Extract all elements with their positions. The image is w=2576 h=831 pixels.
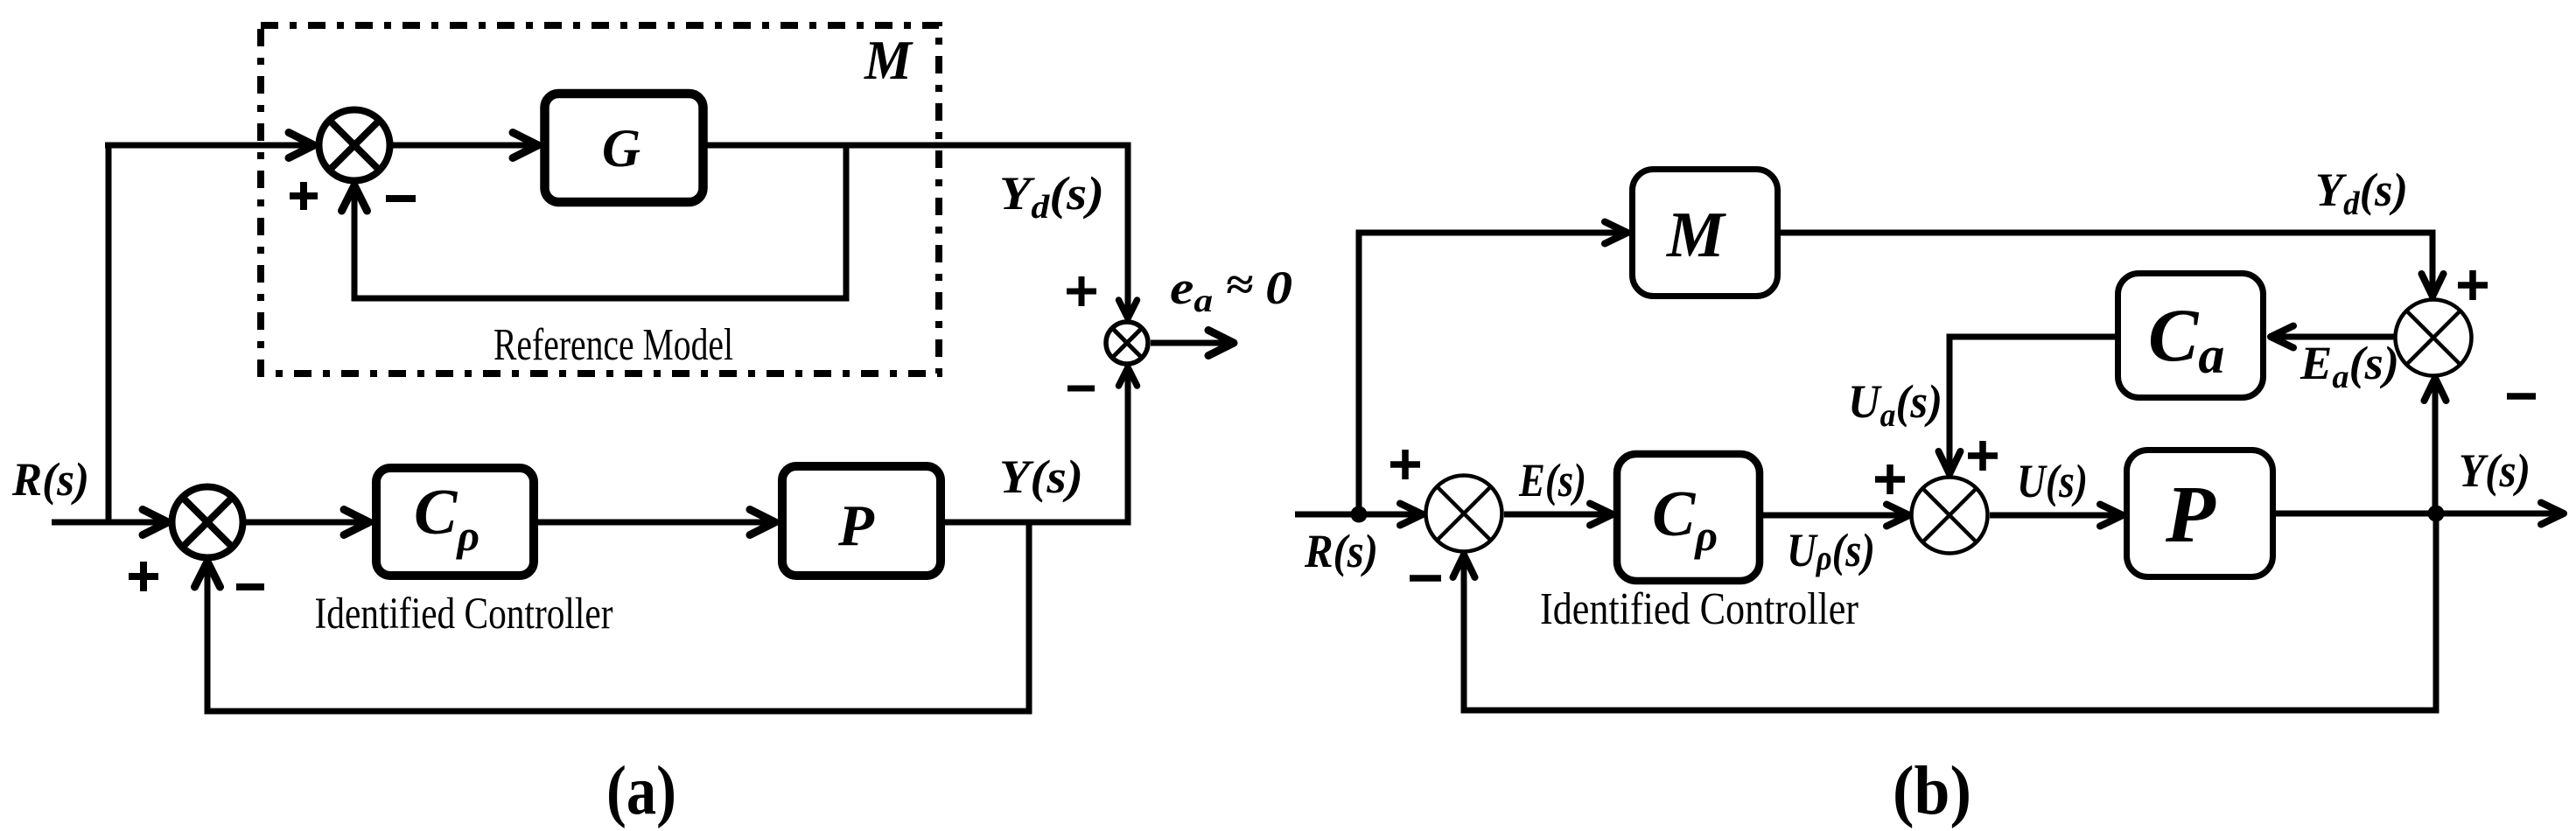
plus sign S4 — [1390, 450, 1420, 479]
svg-text:M: M — [864, 29, 913, 91]
wire M output Yd(s) (b) — [1781, 233, 2444, 297]
wire feedback loop (b) — [1453, 513, 2437, 710]
node Y(s) branch dot — [2428, 506, 2445, 522]
plus sign S3 — [1067, 276, 1096, 306]
svg-text:Y(s): Y(s) — [999, 450, 1083, 503]
summing junction S6 (middle) — [1912, 478, 1988, 554]
svg-text:(a): (a) — [606, 753, 676, 829]
wire into summing junction S1 — [105, 133, 314, 158]
wire S4 to C_rho (b) — [1504, 504, 1613, 526]
wire G feedback loop — [342, 145, 847, 298]
svg-text:Uρ(s): Uρ(s) — [1787, 524, 1875, 577]
svg-text:U(s): U(s) — [2017, 455, 2088, 507]
wire ea output — [1151, 331, 1234, 356]
wire P output Y(s) up into S3 — [945, 367, 1137, 522]
svg-text:ea ≈ 0: ea ≈ 0 — [1170, 260, 1292, 319]
svg-text:Ea(s): Ea(s) — [2299, 337, 2399, 395]
wire C_rho to S6 (b) — [1763, 505, 1909, 527]
node R(s) branch dot — [1351, 506, 1368, 523]
summing junction S4 (left, b) — [1426, 476, 1502, 552]
wire branch R(s) up (a) — [106, 145, 112, 525]
block G — [545, 94, 703, 202]
svg-text:R(s): R(s) — [11, 453, 89, 506]
plus sign S1 — [290, 182, 318, 210]
svg-text:Yd(s): Yd(s) — [999, 167, 1104, 226]
svg-text:E(s): E(s) — [1518, 454, 1586, 506]
summing junction S3 (ea) — [1106, 322, 1148, 364]
svg-text:Reference Model: Reference Model — [493, 320, 733, 370]
wire S1 to G — [390, 133, 538, 158]
wire G output — [707, 143, 1131, 149]
wire branch up to M (b) — [1359, 222, 1627, 515]
svg-text:P: P — [2165, 470, 2216, 560]
svg-text:Y(s): Y(s) — [2459, 444, 2530, 497]
svg-text:Yd(s): Yd(s) — [2315, 164, 2408, 222]
wire Yd(s) down into S3 — [1119, 145, 1137, 318]
minus sign S3 — [1067, 386, 1095, 392]
plus sign S6 left — [1875, 464, 1905, 494]
wire S6 to P (b) — [1990, 505, 2123, 527]
wire S2 to C_rho (a) — [243, 510, 369, 535]
svg-text:Cρ: Cρ — [1652, 478, 1718, 560]
block P (a) plant — [782, 466, 941, 576]
svg-text:M: M — [1666, 199, 1726, 271]
block M (b) reference model — [1633, 170, 1778, 297]
plus sign S2 — [129, 562, 158, 591]
svg-text:Identified Controller: Identified Controller — [315, 590, 613, 639]
wire C_a output Ua(s) down to S6 — [1939, 337, 2116, 474]
minus sign S4 — [1410, 575, 1441, 582]
svg-text:(b): (b) — [1893, 753, 1971, 829]
wire S5 to C_a — [2271, 326, 2394, 348]
block P (b) plant — [2127, 450, 2273, 577]
summing junction S2 — [172, 487, 243, 558]
svg-text:Ua(s): Ua(s) — [1848, 375, 1942, 434]
svg-text:P: P — [837, 493, 875, 558]
block C_rho (a) identified controller — [376, 468, 534, 576]
summing junction S1 — [319, 110, 390, 181]
dash-dot box M (reference model boundary) — [261, 25, 939, 374]
wire C_rho to P (a) — [534, 510, 775, 535]
block C_rho (b) identified controller — [1617, 454, 1760, 581]
wire R(s) input (a) — [52, 510, 168, 535]
svg-text:Identified Controller: Identified Controller — [1540, 584, 1858, 634]
minus sign S2 — [236, 583, 264, 590]
svg-text:Ca: Ca — [2148, 293, 2224, 384]
plus sign S6 top — [1968, 441, 1998, 471]
svg-text:G: G — [602, 120, 640, 178]
minus sign S1 — [386, 195, 416, 202]
summing junction S5 (top right) — [2396, 300, 2472, 376]
svg-text:R(s): R(s) — [1304, 525, 1378, 577]
wire R(s) input (b) — [1295, 504, 1423, 526]
svg-text:Cρ: Cρ — [414, 477, 479, 560]
plus sign S5 — [2458, 270, 2488, 300]
wire node up into S5 — [2425, 378, 2446, 513]
block C_a adaptive controller — [2118, 274, 2264, 398]
minus sign S5 — [2507, 393, 2536, 400]
wire P output Y(s) (b) — [2273, 503, 2564, 525]
wire feedback loop (a) — [195, 520, 1030, 711]
